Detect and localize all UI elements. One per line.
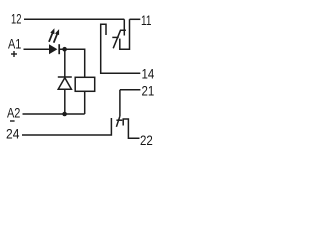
wire 11	[130, 18, 141, 20]
svg-text:A1: A1	[8, 37, 21, 52]
node 21 common vertical	[119, 90, 121, 116]
wire 14 with NO hook	[101, 24, 141, 73]
wire A1	[24, 48, 50, 50]
label plus	[11, 51, 17, 57]
diode D1 (freewheel)	[58, 77, 72, 89]
contact lever K2	[116, 116, 120, 127]
wire 21	[120, 89, 140, 91]
junction node on A2 wire	[62, 112, 67, 117]
LED arrow 2	[54, 29, 59, 43]
svg-text:14: 14	[142, 67, 155, 82]
label minus	[10, 120, 15, 122]
lever tick K1	[112, 36, 118, 38]
wire 24 with NO stub	[22, 118, 111, 135]
wire 22 with NC hook	[123, 119, 139, 138]
LED arrow 1	[49, 28, 54, 42]
relay coil K1	[75, 77, 95, 91]
wire 12 (NC contact 1 feed)	[24, 18, 124, 20]
LED D2	[49, 44, 59, 54]
lever tick K2	[116, 119, 122, 121]
svg-text:12: 12	[11, 12, 21, 27]
svg-text:22: 22	[140, 133, 153, 148]
svg-text:11: 11	[141, 13, 151, 28]
svg-text:A2: A2	[7, 105, 20, 120]
wire diode branch	[64, 49, 66, 77]
wire LED to coil branch	[59, 49, 84, 77]
wire A2	[23, 113, 85, 115]
svg-text:21: 21	[142, 84, 155, 99]
node 12 NC fixed contact	[123, 19, 125, 35]
wire below diode	[64, 89, 66, 114]
junction node at LED output	[62, 47, 67, 52]
node 11 common hook	[120, 19, 130, 49]
contact lever K1	[113, 30, 126, 48]
svg-text:24: 24	[6, 127, 20, 142]
wire coil bottom	[84, 91, 86, 114]
